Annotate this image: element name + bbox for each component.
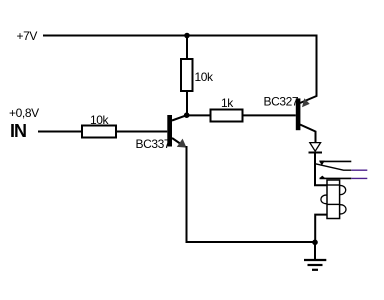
relay coil internal line 1 [327,184,340,186]
wire coil to ground [315,215,327,242]
resistor 10k vertical [181,59,193,91]
wire [187,114,211,116]
svg-text:BC327: BC327 [264,94,299,108]
relay contact fixed throw 1 [320,160,352,162]
junction dot A [184,33,190,39]
junction dot B [184,112,190,118]
wire purple common [351,169,367,171]
relay coil internal line 2 [327,203,340,205]
transistor Q1 emitter arrow [177,139,187,148]
wire [186,91,188,115]
diode D1 triangle [310,143,321,152]
transistor Q1 emitter [172,138,183,146]
relay contact fixed throw 2 [320,177,352,179]
svg-text:IN: IN [10,121,26,141]
transistor Q2 BC327 body [296,98,301,130]
svg-text:+0,8V: +0,8V [9,106,39,120]
wire emitter to ground rail [187,146,316,242]
wire diode to relay coil [315,153,327,186]
relay coil loop right 1 [340,185,346,194]
transistor Q1 collector [172,115,187,120]
resistor 10k horizontal [82,126,116,138]
wire IN [38,131,82,133]
ground bar 2 [308,264,323,266]
resistor 1k [211,110,243,122]
relay coil loop left [321,195,327,204]
ground bar 3 [312,269,318,271]
wire collector to diode [315,131,317,143]
relay contact blade [316,164,352,170]
junction dot C [312,240,318,246]
ground bar 1 [304,259,326,261]
wire [186,36,188,61]
svg-text:+7V: +7V [17,29,38,43]
relay contact arrow 1 [319,161,325,166]
transistor Q2 collector [300,125,316,132]
svg-text:BC337: BC337 [136,137,171,151]
wire purple throw 2 [351,177,367,179]
relay coil K1 body [327,180,340,219]
wire ground stub [314,242,316,260]
transistor Q1 BC337 body [167,115,172,147]
svg-text:1k: 1k [221,96,234,110]
wire [243,114,296,116]
relay contact arrow 2 [319,176,325,179]
svg-text:10k: 10k [90,113,110,127]
wire +7V rail [43,36,317,104]
relay coil loop right 2 [340,205,346,214]
wire [116,131,167,133]
svg-text:10k: 10k [195,70,215,84]
diode D1 cathode bar [309,152,323,154]
transistor Q2 emitter arrow [302,98,310,107]
